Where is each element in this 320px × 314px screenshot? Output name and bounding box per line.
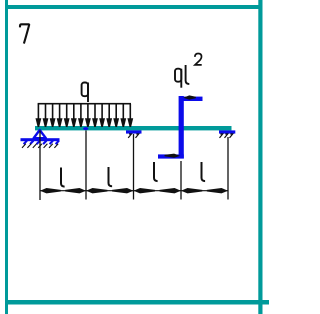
dimension arrows segment 2 [86,188,134,193]
moment ql2 vertical bar [179,96,184,159]
dimension line [40,190,228,192]
dimension arrows segment 4 [181,188,228,193]
dimension extension line 3 [133,134,135,200]
node dot on beam [83,127,88,130]
moment ql2 top arm [180,97,203,101]
label ql2 l [186,65,190,84]
dimension arrows segment 3 [134,188,182,193]
label ql2 superscript 2 [195,54,202,65]
label q [82,83,88,103]
frame left border [5,0,8,314]
dimension label l segment 4 [202,162,206,181]
dimension extension line 2 [85,131,87,200]
moment ql2 top arrowhead [183,95,196,99]
frame top border [5,5,262,9]
pin support A triangle [34,130,46,138]
frame bottom border [5,300,269,305]
roller support B hatches [128,134,139,138]
moment ql2 bottom arm [158,154,184,158]
dimension label l segment 3 [154,162,158,181]
dimension arrows segment 1 [40,188,86,193]
pin support A blue hatches [24,141,59,145]
sliding support C hatches [220,134,233,138]
problem number 7 [20,24,29,43]
distributed load q top line [38,103,131,105]
beam [35,126,232,130]
dimension extension line 4 [180,161,182,200]
moment ql2 bottom arrowhead [165,154,181,158]
dimension extension line 1 [39,131,41,201]
distributed load q arrows [37,104,133,127]
pin support A base bar [21,138,60,141]
ground hatching A [22,144,58,148]
dimension label l segment 1 [61,168,65,187]
dimension extension line 5 [227,137,229,200]
dimension label l segment 2 [109,167,113,186]
sliding support C bar [219,130,235,133]
roller support B bar [126,130,142,133]
label ql2 q [175,69,181,88]
frame right border [258,0,262,314]
